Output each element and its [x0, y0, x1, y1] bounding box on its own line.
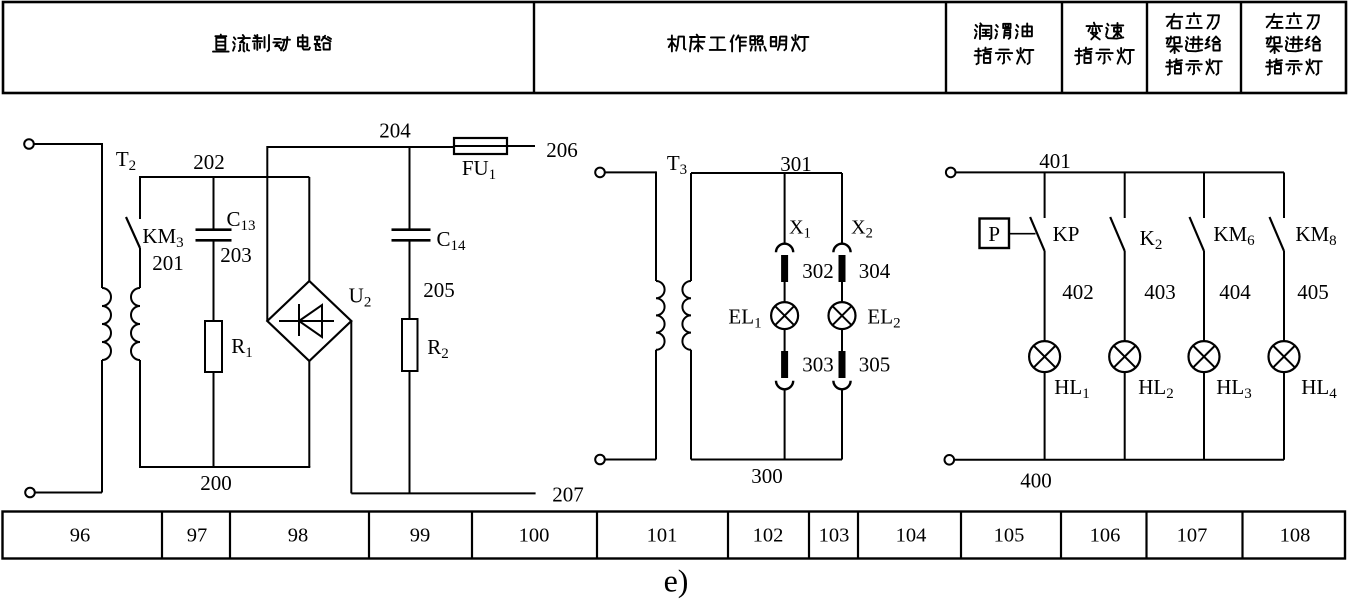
fuse FU1 — [454, 138, 535, 183]
svg-text:400: 400 — [1020, 469, 1052, 493]
svg-text:107: 107 — [1177, 525, 1208, 547]
svg-text:105: 105 — [994, 525, 1025, 547]
svg-text:402: 402 — [1062, 280, 1094, 304]
svg-text:102: 102 — [753, 525, 784, 547]
lamp EL1 — [728, 282, 798, 351]
svg-text:303: 303 — [802, 353, 834, 377]
wire node 207 — [351, 483, 583, 507]
svg-text:201: 201 — [152, 251, 184, 275]
node 201 label — [152, 251, 184, 275]
svg-text:KP: KP — [1053, 222, 1080, 246]
wire T2 primary bottom to bottom-left terminal — [35, 360, 102, 493]
wire node 202 — [139, 150, 309, 177]
lamp HL2 — [1109, 341, 1174, 460]
contact K2 — [1110, 172, 1162, 341]
wire bridge bottom corner to node 200 — [308, 361, 310, 467]
terminal right bottom — [945, 455, 955, 465]
wire terminal to T3 primary — [605, 171, 656, 281]
svg-text:304: 304 — [859, 259, 891, 283]
resistor R2 — [402, 240, 449, 493]
wire node 204 — [267, 119, 454, 148]
terminal right top — [946, 168, 956, 178]
connector X1 upper — [776, 173, 811, 282]
transformer T3 — [656, 151, 691, 350]
node 402 label — [1062, 280, 1094, 304]
svg-text:P: P — [988, 222, 1000, 246]
contact KP — [1030, 172, 1079, 341]
wire node 301 — [691, 152, 842, 176]
svg-text:e): e) — [664, 563, 689, 599]
svg-text:106: 106 — [1090, 525, 1121, 547]
svg-text:207: 207 — [552, 483, 584, 507]
contact KM8 — [1270, 172, 1337, 341]
svg-text:302: 302 — [802, 259, 834, 283]
wire node 400 — [954, 460, 1284, 493]
svg-text:405: 405 — [1297, 280, 1329, 304]
svg-text:300: 300 — [751, 464, 783, 488]
node 206 label — [546, 138, 578, 162]
wire 204 to bridge left corner — [266, 146, 268, 321]
svg-text:205: 205 — [423, 278, 455, 302]
node 205 label — [423, 278, 455, 302]
svg-text:202: 202 — [193, 150, 225, 174]
svg-text:108: 108 — [1280, 525, 1311, 547]
svg-text:99: 99 — [410, 525, 431, 547]
terminal bottom-left — [25, 488, 35, 498]
svg-text:305: 305 — [859, 353, 891, 377]
svg-text:103: 103 — [819, 525, 850, 547]
wire T3 secondary bottom — [690, 350, 692, 460]
svg-text:104: 104 — [896, 525, 927, 547]
svg-text:404: 404 — [1219, 280, 1251, 304]
node 303 label — [802, 353, 834, 377]
node 203 label — [220, 243, 252, 267]
lamp HL3 — [1189, 341, 1252, 460]
terminal top-left — [24, 139, 34, 149]
svg-text:98: 98 — [288, 525, 309, 547]
svg-text:203: 203 — [220, 243, 252, 267]
capacitor C14 — [392, 147, 467, 254]
svg-text:96: 96 — [70, 525, 91, 547]
lamp HL4 — [1269, 341, 1338, 460]
contact KM6 — [1190, 172, 1256, 341]
terminal T3 bottom — [595, 455, 605, 465]
svg-text:204: 204 — [379, 119, 411, 143]
wire node 300 — [691, 460, 842, 489]
pressure switch actuator P box — [980, 219, 1036, 249]
figure label e) — [664, 563, 689, 599]
svg-text:301: 301 — [780, 152, 812, 176]
node 305 label — [859, 353, 891, 377]
terminal strip: wire numbers 96-108 — [3, 512, 1346, 559]
lamp HL1 — [1029, 341, 1090, 460]
wire node 200 — [139, 467, 310, 495]
wire bridge right corner to node 207 — [350, 321, 352, 493]
svg-text:401: 401 — [1039, 149, 1071, 173]
resistor R1 — [205, 240, 253, 467]
wire 202 to bridge top corner — [308, 177, 310, 281]
lamp EL2 — [829, 282, 901, 351]
contact KM3 — [126, 177, 184, 288]
node 405 label — [1297, 280, 1329, 304]
node 302 label — [802, 259, 834, 283]
transformer T2 — [102, 147, 140, 360]
svg-text:101: 101 — [647, 525, 678, 547]
terminal T3 top — [595, 168, 605, 178]
bridge rectifier U2 — [267, 281, 371, 361]
connector X1 lower — [776, 351, 793, 460]
svg-text:100: 100 — [519, 525, 550, 547]
node 304 label — [859, 259, 891, 283]
wire T3 secondary top — [690, 173, 692, 281]
header row: circuit section titles — [3, 2, 1346, 93]
svg-text:200: 200 — [200, 471, 232, 495]
connector X2 upper — [833, 173, 872, 282]
wire from top-left terminal to T2 primary — [34, 143, 102, 288]
node 404 label — [1219, 280, 1251, 304]
svg-text:206: 206 — [546, 138, 578, 162]
capacitor C13 — [196, 177, 256, 240]
svg-text:403: 403 — [1144, 280, 1176, 304]
connector X2 lower — [833, 351, 850, 460]
wire T2 secondary bottom — [139, 360, 141, 467]
wire node 401 — [956, 149, 1285, 173]
wire T3 primary bottom to bottom terminal — [605, 350, 656, 460]
node 403 label — [1144, 280, 1176, 304]
svg-text:97: 97 — [187, 525, 208, 547]
